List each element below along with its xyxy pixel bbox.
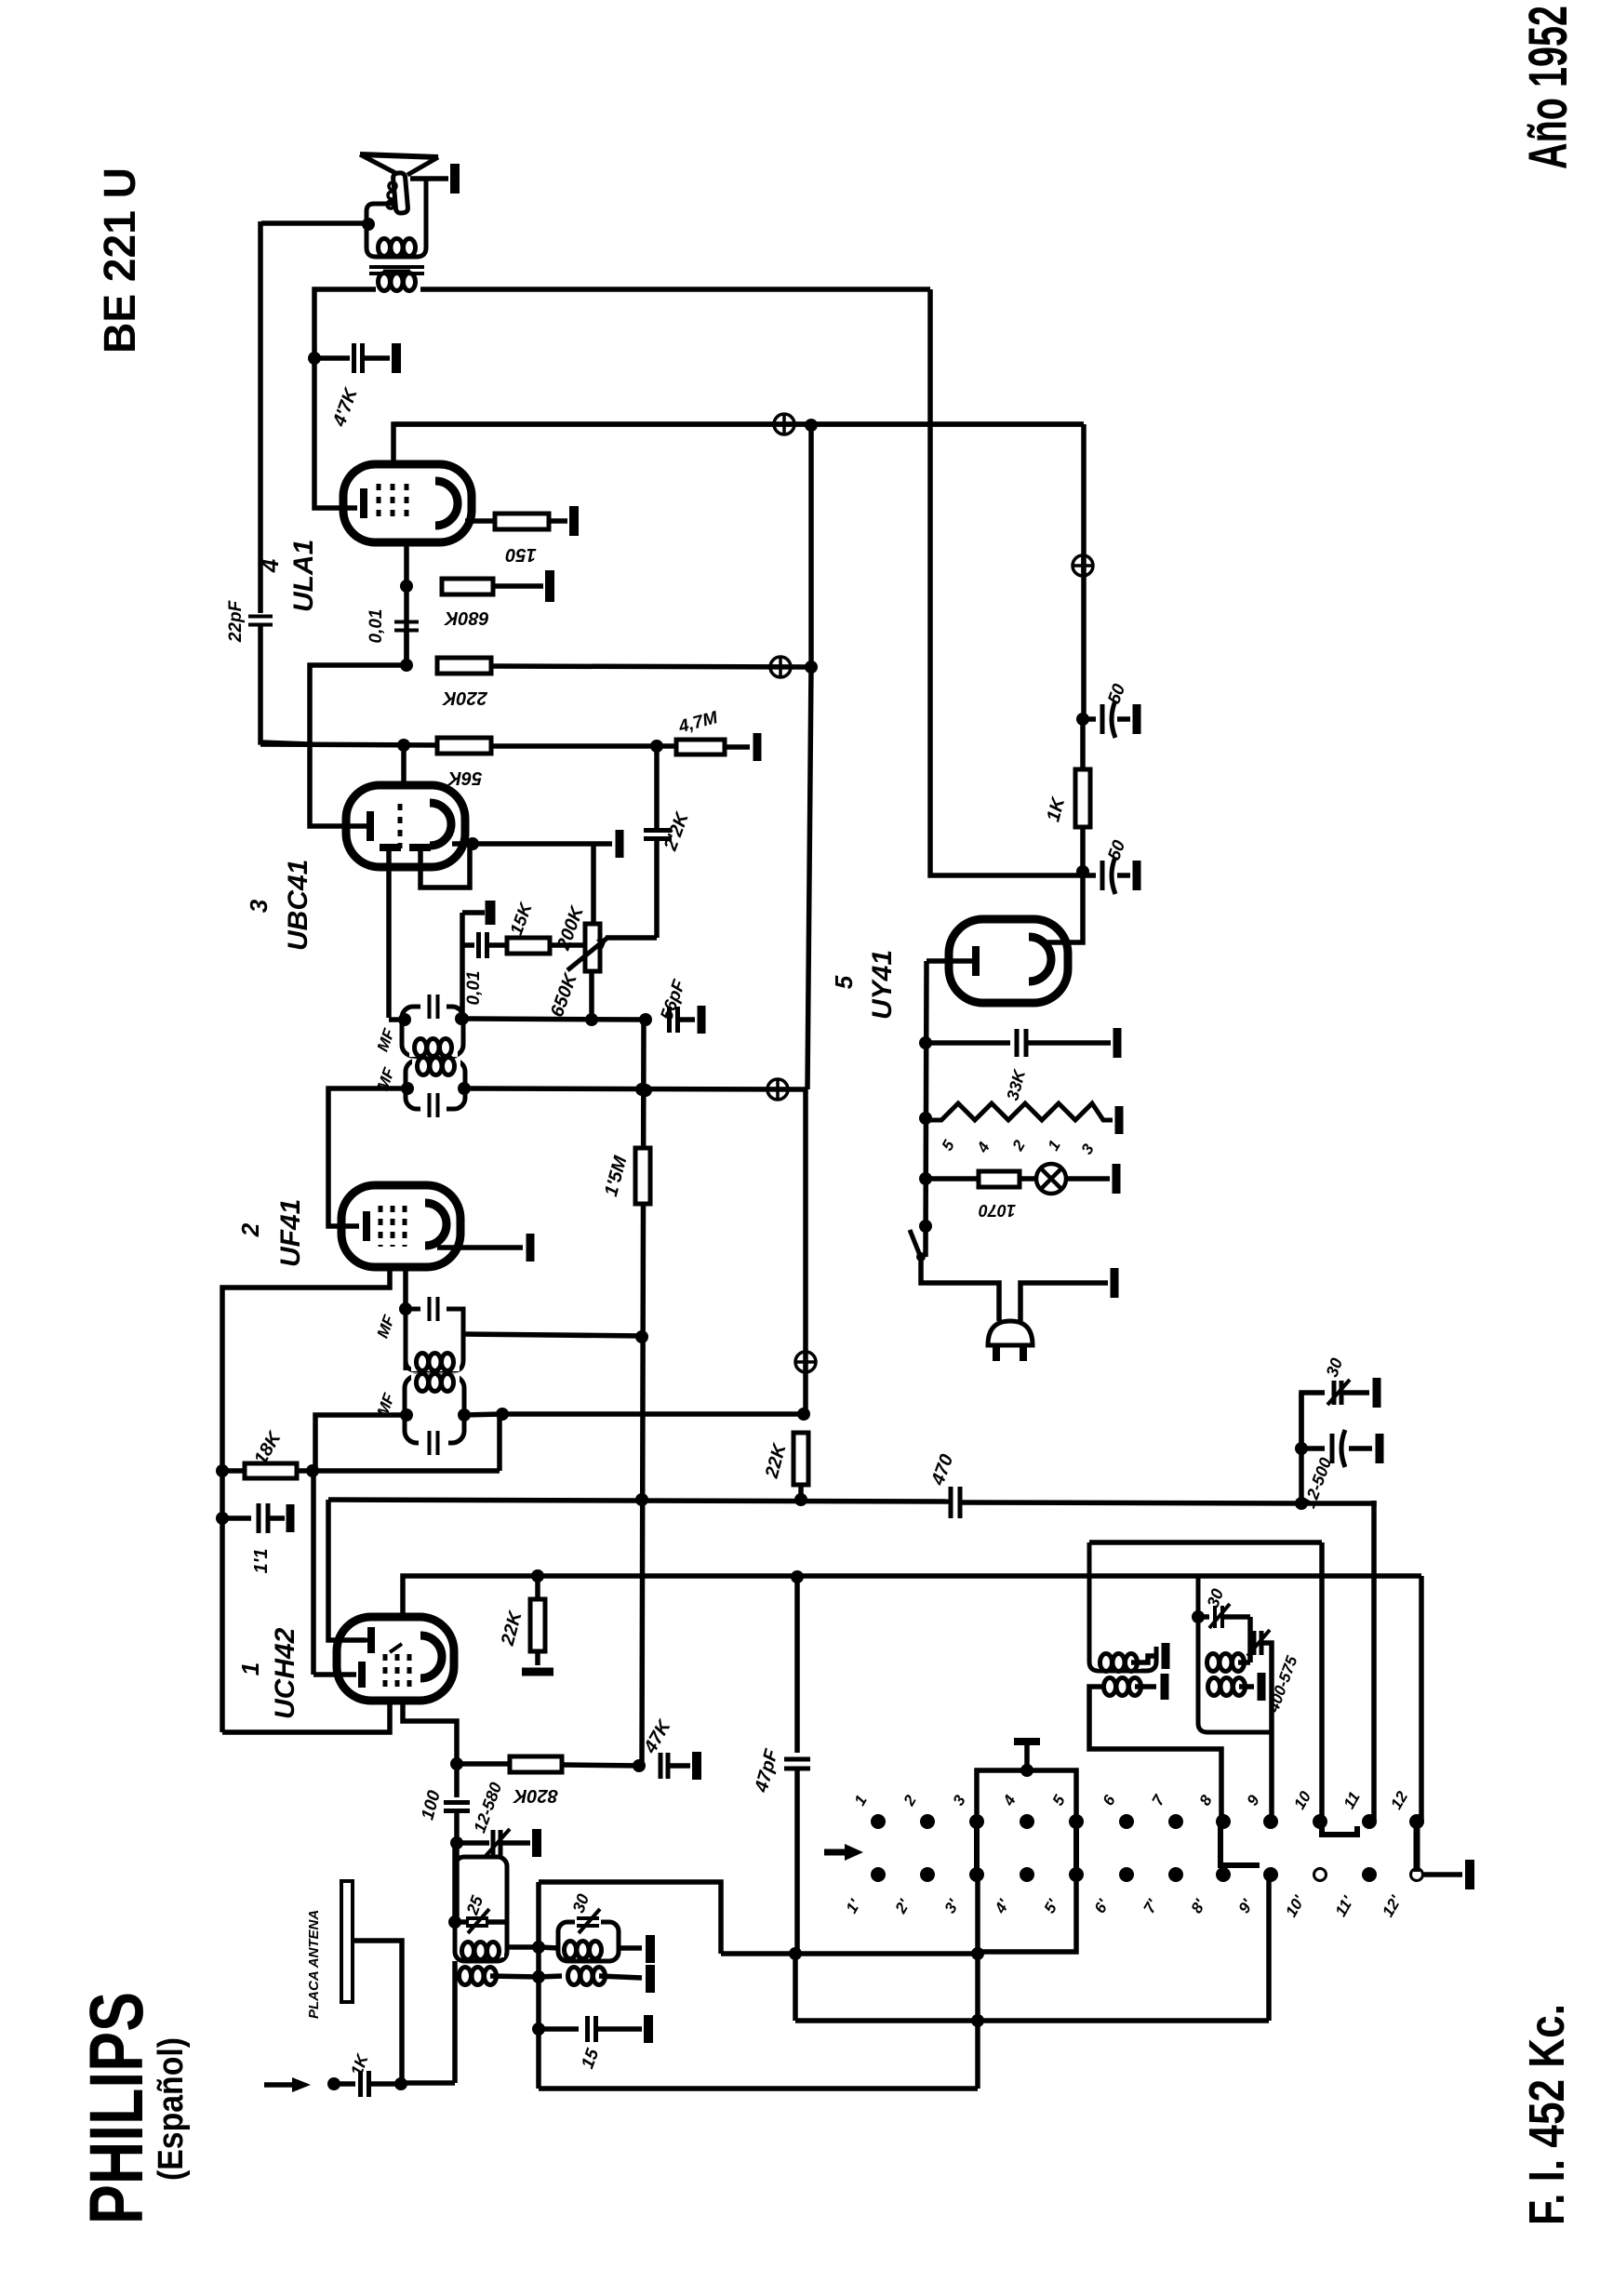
resistor 15K (507, 938, 550, 954)
wire IFT1 upper right (463, 1334, 642, 1336)
ground 47K (692, 1752, 701, 1780)
wire 4'7M to ground (725, 744, 750, 750)
resistor 1'5M (635, 1148, 650, 1204)
ground tone cap (392, 343, 401, 373)
diode plates UBC41 (380, 844, 401, 851)
wire UBC41 cathode (310, 744, 367, 826)
antenna coil L1 secondary (460, 1941, 504, 1957)
osc L3 secondary ground (1131, 1656, 1158, 1662)
tube V2 UF41 (341, 1185, 460, 1267)
output transformer primary coil (379, 239, 416, 257)
capacitor 15 (532, 2022, 545, 2036)
wire 11 up (1371, 1501, 1377, 1822)
wire 220K to HT rail (491, 666, 811, 667)
wire grid line x337 (311, 1471, 316, 1675)
wire 56K to 4'7M (491, 743, 676, 749)
band selector arrow (824, 1849, 848, 1856)
wire L1 primary right (490, 1976, 539, 1977)
switch contact 6' (1119, 1867, 1134, 1882)
osc coil L3 secondary (1098, 1654, 1140, 1669)
resistor 220K (437, 658, 491, 674)
wire UBC41 diode1 down (386, 851, 392, 1018)
ground lamp (1113, 1164, 1121, 1194)
capacitor 0'01 detector (479, 932, 487, 958)
capacitor 33K heater (926, 1040, 1010, 1046)
wire L1 primary left (452, 1961, 458, 2083)
switch contact 9 (1263, 1814, 1278, 1829)
antenna arrow (264, 2082, 298, 2088)
wire UCH42 triode anode (403, 1576, 1421, 1617)
capacitor 4'7K (354, 343, 363, 373)
wire 5' link (978, 1875, 1076, 1952)
resistor heater chain (926, 1103, 1113, 1120)
antenna coil L1 box (455, 1857, 507, 1961)
node rectifier cathode (1076, 865, 1089, 878)
wire 12-12' (1414, 1825, 1420, 1872)
wire UCH42 cathode down (222, 1701, 390, 1732)
wire 12' ground (1421, 1872, 1462, 1877)
wire HT top rail (393, 421, 1084, 427)
wire band rail 1 (721, 1951, 978, 1956)
placa antena plate (341, 1881, 353, 2002)
ground speaker (450, 164, 460, 194)
wire heater string (926, 961, 927, 1257)
wire to mains plug (921, 1257, 999, 1321)
wire cathode rail down (220, 1468, 225, 1732)
wire feedback from OT primary (258, 221, 263, 613)
switch contact 4' (1020, 1867, 1034, 1882)
switch contact 1' (871, 1867, 886, 1882)
capacitor 100 (454, 1764, 460, 1797)
osc coil L4 secondary (1207, 1654, 1245, 1672)
wire 9' down (1266, 1875, 1272, 2021)
antenna terminal (327, 2077, 340, 2090)
wire secondary left (314, 289, 376, 356)
switch contact 10' (1314, 1869, 1327, 1881)
ground UF41 g3 (527, 1234, 535, 1261)
switch contact 3 (969, 1814, 984, 1829)
wire UF41 cathode down (222, 1265, 390, 1468)
osc L4 secondary link (1238, 1660, 1250, 1665)
ground 150 (569, 506, 579, 536)
svg-text:2: 2 (236, 1222, 264, 1237)
switch contact 10 (1313, 1814, 1327, 1829)
tuning gang section 12-500 (1295, 1442, 1308, 1455)
wire 8 link (1220, 1822, 1260, 1865)
output transformer core (369, 265, 424, 269)
switch contact 6 (1119, 1814, 1134, 1829)
svg-text:Año 1952: Año 1952 (1518, 6, 1579, 169)
wire 10 link (1322, 1825, 1357, 1835)
output transformer T1 primary box (367, 177, 426, 257)
wire grid return left (310, 665, 407, 744)
switch contact 4 (1020, 1814, 1034, 1829)
switch contact 7 (1168, 1814, 1183, 1829)
wire AVC to 18K (297, 1468, 500, 1474)
svg-text:0,01: 0,01 (367, 609, 386, 644)
wire 9 to padder (1269, 1732, 1274, 1822)
wire 820K right (562, 1765, 642, 1766)
capacitor 2'2K (644, 831, 672, 839)
switch contact 12' (1411, 1869, 1423, 1881)
osc coil L4 primary (1208, 1678, 1246, 1696)
IFT1 lower cap (419, 1435, 448, 1451)
wire plug to ground (1020, 1283, 1108, 1321)
trimmer 30 osc (1192, 1610, 1205, 1623)
resistor 18K (245, 1463, 297, 1478)
ground 22K osc (535, 1651, 540, 1665)
resistor 1K smoothing (1080, 719, 1086, 769)
switch contact 2' (920, 1867, 935, 1882)
wire L1 bottom right (507, 1944, 539, 1950)
antenna coil L2 primary (568, 1968, 606, 1985)
wire 150 to ground (549, 518, 567, 524)
switch contact 8 (1216, 1814, 1231, 1829)
wire 5-5' (1073, 1822, 1079, 1875)
tube V4 ULA1 (343, 464, 472, 542)
wire ULA1 cathode to 150 (465, 518, 495, 524)
wire OT primary input (261, 220, 367, 226)
osc L3 primary ground (1135, 1684, 1156, 1689)
wire anode supply vertical (1081, 424, 1087, 719)
resistor 4'7M (676, 740, 725, 754)
svg-text:UY41: UY41 (867, 950, 898, 1020)
ground bracket (1024, 1745, 1030, 1770)
antenna coil L2 secondary (564, 1941, 612, 1956)
trimmer 30 antenna (575, 1915, 601, 1929)
osc L4 primary ground (1239, 1684, 1254, 1689)
wire 22K to osc rail (798, 1485, 804, 1500)
svg-text:22pF: 22pF (226, 599, 246, 643)
switch contact 7' (1168, 1867, 1183, 1882)
wire osc rail (328, 1500, 951, 1502)
wire placa antena (353, 1941, 402, 2084)
wire speaker to ground (410, 176, 448, 181)
IFT1 upper cap (430, 1297, 438, 1321)
wire detector node (460, 913, 465, 1018)
wire UCH42 hexode grid stem (313, 1672, 356, 1677)
svg-text:UBC41: UBC41 (283, 860, 313, 951)
ground 4'7M (753, 733, 762, 761)
wire IFT1 right junction (464, 1414, 502, 1415)
tube V5 UY41 (949, 919, 1068, 1003)
switch contact 5' (1069, 1867, 1084, 1882)
capacitor 0'01 coupling (394, 622, 419, 631)
wire UF41 anode down (403, 1265, 408, 1308)
wire UBC41 anode to ground (452, 841, 593, 847)
wire IFT2 right rail (465, 1088, 807, 1089)
wire L1 to grid line (452, 1843, 458, 1922)
capacitor 470 (951, 1487, 960, 1518)
wire screen rail (502, 1411, 806, 1417)
wire gang rail right (1301, 1501, 1374, 1503)
wire band rail 2 (795, 2018, 1269, 2023)
switch contact 3' (969, 1867, 984, 1882)
wire screen feed vertical (642, 1020, 644, 1766)
resistor 820K (457, 1761, 510, 1767)
padder 400-575 (1254, 1631, 1261, 1655)
wire contacts 3-5 bracket (977, 1770, 1076, 1822)
svg-text:1'1: 1'1 (251, 1548, 272, 1573)
wire 2'2K up (654, 746, 660, 830)
resistor 56K (437, 738, 491, 754)
IF transformer IFT2 lower box (406, 1061, 465, 1109)
wire 18K left (222, 1468, 245, 1474)
svg-text:F. I. 452 Kc.: F. I. 452 Kc. (1519, 2004, 1575, 2225)
wire UBC41 diode2 (420, 844, 470, 888)
wire speaker secondary to rail (420, 287, 930, 292)
svg-text:PLACA ANTENA: PLACA ANTENA (306, 1910, 322, 2019)
osc coil L3 primary (1104, 1678, 1141, 1696)
wire feedback lower (260, 626, 310, 744)
capacitor 50uF upper (1083, 716, 1096, 722)
svg-text:PHILIPS: PHILIPS (74, 1992, 159, 2224)
wire mixer grid to antenna coils (454, 1843, 460, 1922)
resistor 22K osc (535, 1576, 540, 1599)
resistor 1070 lamp dropper (926, 1176, 979, 1181)
wire L2 to ground (619, 1945, 642, 1951)
IF transformer IFT1 lower box (405, 1376, 464, 1443)
switch contact 2 (920, 1814, 935, 1829)
wire det rail (462, 1019, 646, 1020)
wire pot bottom (589, 971, 594, 1020)
wire L2 primary ground (599, 1976, 642, 1978)
ground detector (486, 901, 496, 925)
wire antenna to coils (369, 2081, 401, 2087)
wire AVC drop (497, 1414, 502, 1471)
trimmer 30 gang (1301, 1393, 1325, 1448)
resistor 22K decoupling (793, 1433, 808, 1485)
wire band rail 3 (539, 2086, 978, 2091)
capacitor 47pF (794, 1577, 800, 1753)
switch contact 1 (871, 1814, 886, 1829)
wire UBC41 grid (401, 745, 407, 787)
svg-text:150: 150 (505, 544, 536, 565)
wire 15K to pot (550, 942, 585, 948)
ground UBC41 anode (593, 841, 612, 847)
ground mains (1111, 1268, 1119, 1298)
wire rectifier anode (1046, 875, 1083, 942)
capacitor 1'1 (216, 1512, 229, 1525)
wire IFT1 left to grid line (315, 1415, 407, 1471)
wire to tone cap (314, 355, 350, 361)
switch contact 8' (1216, 1867, 1231, 1882)
wire osc rail top (1089, 1540, 1322, 1545)
trimmer 12-580 (457, 1840, 489, 1846)
wire AVC rail (260, 744, 437, 745)
trimmer 25 (448, 1916, 461, 1929)
wire UCH42 mixer grid down (403, 1701, 457, 1761)
switch contact 5 (1069, 1814, 1084, 1829)
IFT2 lower coil (412, 1059, 460, 1074)
IFT2 upper cap (420, 999, 447, 1014)
wire L4 right edge (1247, 1617, 1253, 1634)
potentiometer 650K volume (585, 924, 600, 971)
svg-text:(Español): (Español) (152, 2037, 191, 2181)
svg-text:BE 221 U: BE 221 U (96, 167, 145, 354)
svg-text:UF41: UF41 (275, 1199, 306, 1267)
wire 10 up (1319, 1542, 1325, 1822)
wire IFT2 to UF41 grid (328, 1088, 406, 1226)
resistor 150 (495, 514, 549, 529)
svg-text:UCH42: UCH42 (270, 1627, 300, 1719)
wire 3-3' (974, 1822, 980, 1875)
node 220K junction (404, 632, 409, 665)
ground 56pF (698, 1006, 706, 1034)
mains plug (988, 1321, 1033, 1345)
antenna coil L1 primary (460, 1968, 497, 1985)
wire pot wiper to 2'2K (606, 935, 657, 941)
resistor 680K (442, 579, 493, 594)
switch contact 12 (1409, 1814, 1424, 1829)
wire pot top (591, 844, 596, 924)
mains switch (919, 1220, 932, 1233)
oscillator coil box L4 (1198, 1576, 1272, 1732)
output transformer secondary coil (379, 274, 416, 291)
svg-text:ULA1: ULA1 (288, 540, 319, 612)
wire UY41 cathode stem (927, 958, 972, 964)
IF transformer IFT2 upper box (402, 1007, 463, 1056)
wire ULA1 grid2 top (393, 424, 1084, 462)
switch contact 9' (1263, 1867, 1278, 1882)
IFT2 upper coil (409, 1040, 458, 1057)
IF transformer IFT1 upper box (406, 1309, 463, 1370)
tube V3 UBC41 (346, 785, 465, 867)
oscillator coil box L3 (1089, 1542, 1156, 1671)
wire ULA1 grid (314, 358, 357, 508)
wire 3' vertical (975, 1875, 980, 2089)
wire L2 left (539, 1947, 558, 1948)
wire 680K to ground (493, 583, 543, 589)
wire gang to osc rail (1299, 1393, 1304, 1503)
capacitor 47K osc (660, 1753, 668, 1779)
capacitor 1K antenna (361, 2071, 369, 2097)
svg-text:4: 4 (256, 558, 284, 573)
wire osc L3 primary left (1089, 1687, 1221, 1769)
wire L2 primary (539, 1976, 562, 1977)
svg-text:5: 5 (830, 975, 858, 989)
wire 100 down (454, 1811, 460, 1843)
wire ULA1 anode down (404, 542, 409, 665)
wire IFT2 to diode (389, 1017, 402, 1022)
wire to 15K (487, 942, 507, 948)
capacitor 22pF (248, 617, 273, 625)
wire HT rail vertical (808, 425, 814, 667)
svg-text:0,01: 0,01 (464, 971, 484, 1006)
wire 8 to osc coil (1219, 1769, 1224, 1822)
switch contact 11' (1362, 1867, 1377, 1882)
wire band vertical (536, 1882, 541, 2089)
pilot lamp (1020, 1176, 1035, 1181)
tube V1 UCH42 (337, 1617, 454, 1701)
IFT1 lower coil (411, 1374, 460, 1389)
IFT1 upper coil (411, 1355, 460, 1371)
wire transformerless B+ return (930, 289, 1083, 875)
wire 12 up (1419, 1576, 1424, 1822)
wire 47pF drop (793, 1954, 798, 2021)
svg-text:1: 1 (236, 1662, 264, 1675)
svg-text:56K: 56K (447, 768, 482, 788)
svg-text:1070: 1070 (979, 1201, 1016, 1220)
svg-text:680K: 680K (444, 607, 489, 628)
wire UF41 g3 to ground (437, 1245, 523, 1250)
svg-text:3: 3 (245, 899, 273, 913)
ground 680K (545, 570, 554, 602)
svg-text:820K: 820K (513, 1785, 558, 1806)
switch contact 11 (1362, 1814, 1377, 1829)
loudspeaker LS (360, 154, 438, 157)
capacitor 56pF (670, 1007, 678, 1033)
wire band rail top (539, 1882, 721, 1954)
wire triode grid UCH42 (328, 1500, 366, 1640)
svg-text:220K: 220K (442, 687, 488, 708)
antenna coil L2 box (558, 1922, 619, 1961)
capacitor 50uF lower (1083, 873, 1096, 878)
IFT2 lower cap (420, 1096, 447, 1113)
wire osc rail right (960, 1502, 1301, 1503)
